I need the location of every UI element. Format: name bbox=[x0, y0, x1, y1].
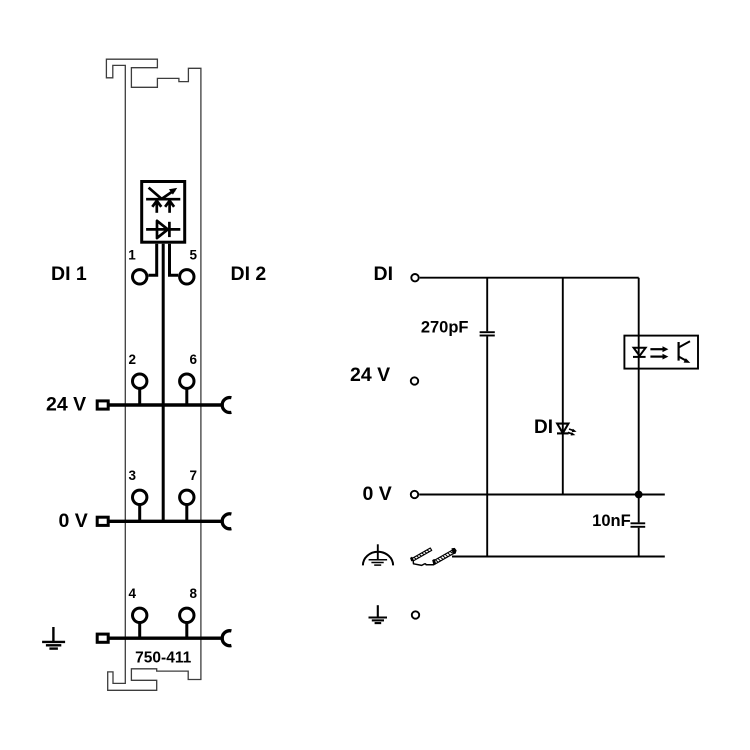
functional earth symbol bbox=[369, 605, 388, 623]
ring earth symbol bbox=[363, 544, 393, 565]
svg-text:DI: DI bbox=[374, 263, 394, 285]
0V hook connector bbox=[222, 514, 231, 529]
svg-text:DI: DI bbox=[534, 417, 553, 438]
node 0V circle bbox=[411, 491, 418, 498]
terminal 7 bbox=[180, 490, 194, 504]
svg-text:24 V: 24 V bbox=[46, 394, 86, 416]
screw terminal square ground bbox=[97, 634, 108, 642]
svg-text:24 V: 24 V bbox=[350, 364, 390, 386]
terminal 1 bbox=[133, 270, 147, 284]
svg-text:3: 3 bbox=[129, 468, 137, 483]
svg-text:5: 5 bbox=[190, 247, 198, 262]
wire stem terminal 8 bbox=[185, 623, 188, 638]
24V bus line bbox=[109, 403, 224, 406]
diode D1 triangle bbox=[157, 221, 168, 238]
wire vertical branch 1 lower bbox=[486, 336, 488, 557]
capacitor C2 10nF plates bbox=[631, 523, 646, 527]
wire branch 3 lower bbox=[638, 528, 640, 558]
svg-text:10nF: 10nF bbox=[592, 512, 631, 530]
0V wire horizontal bbox=[419, 494, 665, 496]
junction dot bbox=[635, 491, 643, 499]
wire leg left from LED box bbox=[148, 244, 156, 276]
svg-text:8: 8 bbox=[190, 586, 198, 601]
diode D1 cathode bbox=[168, 222, 171, 237]
DIN rail shield symbol bbox=[411, 548, 457, 565]
terminal 4 bbox=[133, 608, 147, 622]
wire branch 3 middle bbox=[638, 495, 640, 523]
wire vertical branch 3 upper bbox=[638, 278, 640, 495]
terminal 5 bbox=[180, 270, 194, 284]
optocoupler LED triangle bbox=[634, 348, 646, 356]
optocoupler phototransistor emitter bbox=[679, 357, 691, 363]
ground hook connector bbox=[222, 631, 231, 646]
shield bus wire bbox=[452, 556, 665, 558]
ground symbol left bbox=[42, 627, 65, 649]
svg-text:DI 1: DI 1 bbox=[51, 263, 87, 285]
svg-text:2: 2 bbox=[129, 352, 137, 367]
wire leg right from LED box bbox=[170, 244, 179, 276]
status LED bar bbox=[146, 198, 180, 201]
LED DI emission arrows bbox=[568, 429, 577, 436]
svg-text:0 V: 0 V bbox=[363, 483, 392, 505]
svg-text:1: 1 bbox=[128, 247, 136, 262]
24V hook connector bbox=[222, 398, 231, 413]
optocoupler LED cathode bbox=[633, 356, 646, 358]
terminal 8 bbox=[180, 608, 194, 622]
wire vertical branch 1 upper bbox=[486, 278, 488, 332]
0V bus line bbox=[109, 520, 224, 523]
status LED arrow left bbox=[152, 200, 161, 213]
terminal 6 bbox=[180, 374, 194, 388]
capacitor C1 270pF plates bbox=[480, 332, 495, 335]
svg-text:DI 2: DI 2 bbox=[231, 263, 267, 285]
optocoupler phototransistor base bar bbox=[677, 342, 679, 361]
LED DI triangle bbox=[557, 424, 568, 434]
terminal 2 bbox=[133, 374, 147, 388]
wire center vertical to 0V bus bbox=[162, 244, 165, 522]
svg-text:6: 6 bbox=[190, 352, 198, 367]
svg-text:0 V: 0 V bbox=[59, 510, 88, 532]
status LED bounce arrow bbox=[149, 188, 178, 200]
wire stem terminal 3 bbox=[138, 505, 141, 521]
optocoupler phototransistor collector bbox=[679, 341, 690, 347]
wire stem terminal 2 bbox=[138, 389, 141, 405]
module outline 750-411 housing bbox=[106, 59, 200, 690]
optocoupler coupling arrow top bbox=[650, 346, 668, 352]
LED DI cathode bar bbox=[557, 432, 569, 434]
status LED arrow right bbox=[165, 200, 174, 213]
screw terminal square 24V bbox=[97, 401, 108, 409]
functional earth circle bbox=[412, 611, 419, 618]
diode D1 bar bbox=[146, 228, 180, 231]
svg-text:7: 7 bbox=[190, 468, 198, 483]
svg-text:4: 4 bbox=[129, 586, 137, 601]
LED box U1 bbox=[142, 182, 185, 243]
node DI circle bbox=[411, 274, 418, 281]
DI wire horizontal bbox=[420, 277, 639, 279]
wire vertical branch 2 bbox=[562, 278, 564, 495]
wire stem terminal 6 bbox=[185, 389, 188, 405]
optocoupler U2 box bbox=[624, 336, 698, 369]
optocoupler coupling arrow bottom bbox=[650, 354, 668, 360]
wire stem terminal 7 bbox=[185, 505, 188, 521]
ground bus line bbox=[109, 637, 224, 640]
svg-text:750-411: 750-411 bbox=[135, 649, 191, 666]
wire stem terminal 4 bbox=[138, 623, 141, 638]
svg-text:270pF: 270pF bbox=[421, 319, 469, 337]
terminal 3 bbox=[133, 490, 147, 504]
screw terminal square 0V bbox=[97, 517, 108, 525]
node 24V circle bbox=[411, 377, 418, 384]
